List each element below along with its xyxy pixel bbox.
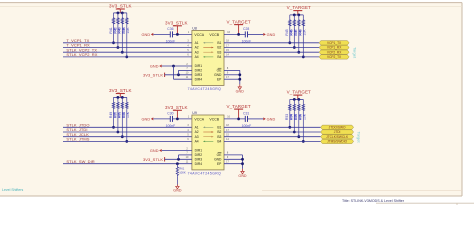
svg-text:JTCLK/SWCLK: JTCLK/SWCLK [326,135,349,139]
wire 3V3 to DIR3 (top) [165,74,192,76]
svg-text:A3: A3 [195,135,199,139]
power port 3V3_STLK (top left pull-ups) [109,4,132,13]
sheet border frame [0,2,462,4]
svg-text:3V3_STLK: 3V3_STLK [109,4,132,9]
svg-text:VCCA: VCCA [194,117,204,121]
wire net STLK_VCP2_RX [63,56,192,58]
wire C36 to VCCA pin [173,33,192,35]
svg-text:V_TARGET: V_TARGET [226,104,250,109]
junction dots pull-up bus (bottom right) [293,98,296,101]
wire GND to C30 [153,118,170,120]
svg-text:OE: OE [217,69,223,73]
svg-text:B2: B2 [217,130,221,134]
chip channel 1 pins/arrow (bottom) [195,126,222,130]
wire B4 to port VCP2_TX [224,56,319,58]
svg-text:DIR1: DIR1 [195,64,203,68]
wire net STLK_SW_DIR [63,163,192,165]
junction dot R44 to line 4 [125,56,128,59]
svg-text:B4: B4 [217,55,221,59]
svg-text:A1: A1 [195,41,199,45]
svg-text:GND: GND [214,73,222,77]
svg-text:DIR3: DIR3 [195,158,203,162]
svg-text:10K: 10K [126,111,130,118]
power port GND (top DIR1) [150,65,162,69]
resistor R50 10K (bottom left pull-up 2) [113,97,121,132]
junction dot R41 to line 1 [112,41,115,44]
chip channel 3 pins/arrow (top) [195,50,222,54]
junction dot V_TARGET/VCCB (bottom) [237,118,240,121]
wire OE stub (bottom) [224,154,243,156]
svg-text:STLK_SW_DIR: STLK_SW_DIR [66,159,94,164]
svg-text:A3: A3 [195,50,199,54]
resistor R47 10K (top right pull-up 3) [294,15,302,52]
svg-text:C31: C31 [243,111,249,115]
resistor R44 10K (top left pull-up 4) [122,13,130,57]
svg-text:74AVC4T245GRQ: 74AVC4T245GRQ [188,87,222,91]
svg-text:B2: B2 [217,46,221,50]
svg-text:100nF: 100nF [166,124,176,128]
resistor R54 10K (bottom right pull-up 2) [290,99,298,132]
junction dot R50 to line 2 [117,131,120,134]
svg-text:3V3_STLK: 3V3_STLK [143,157,163,162]
svg-text:DIR4: DIR4 [195,77,203,81]
chip U9 74AVC4T245 body (bottom) [192,115,224,170]
svg-text:U8: U8 [192,26,197,30]
svg-text:B4: B4 [217,140,221,144]
svg-text:JTDI: JTDI [334,130,341,134]
wire B3 to port JTCLK/SWCLK [224,136,321,138]
wire GND to DIR1 (top) [162,65,192,67]
power port 3V3_STLK (bottom DIR) [143,157,165,162]
capacitor C36 100nF [170,31,172,37]
power port 3V3_STLK (top VCCA) [165,21,188,35]
svg-text:VCCB: VCCB [209,117,219,121]
svg-text:VCP1_RX: VCP1_RX [327,46,342,50]
junction dot R45 to line 1 (top right) [288,41,291,44]
junction dot STLK_SW_DIR / R61 [176,162,179,165]
chip channel 2 pins/arrow (bottom) [195,130,222,134]
junction dot 3V3/VCCA (top) [176,33,179,36]
wire net STLK_JCLK [63,136,192,138]
svg-text:JTMS/SWDIO: JTMS/SWDIO [327,140,348,144]
svg-text:GND: GND [150,149,159,153]
resistor R53 10K (bottom right pull-up 1) [285,99,293,127]
resistor R52 10K (bottom left pull-up 4) [122,97,130,141]
port JTCLK/SWCLK [321,135,354,139]
chip U8 74AVC4T245 body (top) [192,31,224,86]
wire VCCB out (top) [224,33,245,35]
power port V_TARGET (top right pull-ups) [287,5,311,15]
wire B1 to port JTDO/SWO [224,126,321,128]
wire pull-up bus (bottom left) [114,96,127,98]
svg-text:GND: GND [267,117,276,121]
svg-text:DIR2: DIR2 [195,153,203,157]
svg-text:GND: GND [150,65,159,69]
resistor R48 10K (top right pull-up 4) [299,15,307,57]
power port V_TARGET (bottom right pull-ups) [287,90,311,100]
wire OE stub (top) [224,69,240,71]
wire B1 to port VCP1_TX [224,42,319,44]
wire pull-up bus (top right) [290,14,304,16]
power port 3V3_STLK (top DIR) [143,72,165,77]
svg-text:C30: C30 [167,111,173,115]
wire B3 to port VCP2_RX [224,51,319,53]
next page edge [376,202,474,204]
svg-text:3V3_STLK: 3V3_STLK [109,88,132,93]
junction dot R56 to line 4 (bottom right) [302,140,305,143]
svg-text:Title: STLINK-V3MODS & Level S: Title: STLINK-V3MODS & Level Shifter [342,199,405,203]
svg-text:VCP2_RX: VCP2_RX [327,50,342,54]
wire net STLK_VCP2_TX [63,51,192,53]
wire OE/GND/EP join (top) [239,70,241,84]
svg-text:U9: U9 [192,111,197,115]
svg-text:10K: 10K [303,29,307,36]
svg-text:GND: GND [141,33,150,37]
port VCP1_RX [319,45,349,49]
resistor R61 100K pull-down [176,164,186,185]
svg-text:A1: A1 [195,126,199,130]
wire DIR3 to DIR2 (bottom) [178,155,180,159]
svg-text:3V3_STLK: 3V3_STLK [165,105,188,110]
junction dot DIR3 (bottom) [177,158,180,161]
junction dots pull-up bus (top right) [293,14,296,17]
port VCP2_TX [319,55,349,59]
svg-text:DIR4: DIR4 [195,162,203,166]
wire B4 to port JTMS/SWDIO [224,140,321,142]
svg-text:100K: 100K [179,171,186,175]
svg-text:GND: GND [267,33,276,37]
svg-text:VCP1_TX: VCP1_TX [327,41,342,45]
wire net STLK_JTMS [63,140,192,142]
junction dot R47 to line 3 (top right) [297,51,300,54]
junction dot R46 to line 2 (top right) [293,46,296,49]
ground OE/GND/EP (bottom) [238,169,247,178]
svg-text:DIR2: DIR2 [195,69,203,73]
junction dot 3V3/VCCA (bottom) [176,118,179,121]
port JTMS/SWDIO [321,139,354,143]
power port GND (bottom VCCB) [263,117,275,121]
wire DIR1 to DIR4 (top) [173,66,175,79]
junction dot V_TARGET/VCCB (top) [237,33,240,36]
svg-text:V_TARGET: V_TARGET [287,90,311,95]
svg-text:DIR3: DIR3 [195,73,203,77]
svg-text:GND: GND [141,117,150,121]
wire C30 to VCCA pin [173,118,192,120]
resistor R42 10K (top left pull-up 2) [113,13,121,48]
power port V_TARGET (bottom VCCB) [226,104,250,119]
power port 3V3_STLK (bottom VCCA) [165,105,188,119]
resistor R46 10K (top right pull-up 2) [290,15,298,48]
junction dot R55 to line 3 (bottom right) [297,135,300,138]
resistor R51 10K (bottom left pull-up 3) [118,97,126,136]
chip channel 4 pins/arrow (bottom) [195,140,222,144]
junction dots OE join (top) [238,73,241,76]
wire C28 to GND (top) [248,33,264,35]
svg-text:Target: Target [353,47,358,59]
junction dot R52 to line 4 [125,140,128,143]
svg-text:VCCA: VCCA [194,33,204,37]
capacitor C30 100nF [170,116,172,122]
title block top edge [262,190,462,192]
svg-text:GND: GND [214,158,222,162]
svg-text:100nF: 100nF [166,40,176,44]
resistor R49 10K (bottom left pull-up 1) [109,97,117,127]
svg-text:VCCB: VCCB [209,33,219,37]
wire EP stub (bottom) [224,163,243,165]
svg-text:10K: 10K [303,113,307,120]
power port GND (top VCCA) [141,33,153,37]
svg-text:10K: 10K [126,27,130,34]
chip channel 3 pins/arrow (bottom) [195,135,222,139]
chip channel 4 pins/arrow (top) [195,55,222,59]
wire GND stub (top) [224,74,240,76]
junction dot DIR1 (top) [172,65,175,68]
svg-text:B3: B3 [217,135,221,139]
junction dot R51 to line 3 [121,135,124,138]
junction dots OE join (bottom) [241,158,244,161]
svg-text:B1: B1 [217,41,221,45]
power port GND (bottom DIR1) [150,149,162,153]
junction dot R49 to line 1 [112,126,115,129]
power port GND (bottom VCCA) [141,117,153,121]
resistor R55 10K (bottom right pull-up 3) [294,99,302,136]
svg-text:GND: GND [238,174,247,178]
resistor R43 10K (top left pull-up 3) [118,13,126,52]
svg-text:Level Shifters: Level Shifters [2,188,23,192]
wire net STLK_JTDI [63,131,192,133]
port JTDI [321,130,354,134]
resistor R56 10K (bottom right pull-up 4) [299,99,307,141]
wire DIR3 to DIR2 (top) [178,70,180,74]
wire net STLK_JTDO [63,126,192,128]
chip channel 1 pins/arrow (top) [195,41,222,45]
port JTDO/SWO [321,125,354,129]
wire pull-up bus (bottom right) [290,98,304,100]
svg-text:VCP2_TX: VCP2_TX [327,55,342,59]
svg-text:GND: GND [173,189,182,193]
junction dot R54 to line 2 (bottom right) [293,131,296,134]
wire EP stub (top) [224,78,240,80]
svg-text:JTDO/SWO: JTDO/SWO [329,125,346,129]
wire VCCB out (bottom) [224,118,245,120]
svg-text:3V3_STLK: 3V3_STLK [143,72,163,77]
port VCP2_RX [319,50,349,54]
svg-text:STLK_VCP2_RX: STLK_VCP2_RX [66,52,97,57]
wire GND to C36 [153,33,170,35]
ground OE/GND/EP (top) [236,84,245,93]
ground R61 [173,185,182,193]
wire GND stub (bottom) [224,158,243,160]
wire 3V3 to DIR3 (bottom) [165,158,192,160]
resistor R45 10K (top right pull-up 1) [285,15,293,43]
power port V_TARGET (top VCCB) [226,19,250,34]
wire net T_VCP1_RX [63,47,192,49]
junction dots pull-up bus (bottom left) [117,96,120,99]
junction dot R42 to line 2 [117,46,120,49]
wire B2 to port VCP1_RX [224,47,319,49]
svg-text:B1: B1 [217,126,221,130]
junction dot R43 to line 3 [121,51,124,54]
resistor R41 10K (top left pull-up 1) [109,13,117,43]
svg-text:V_TARGET: V_TARGET [287,5,311,10]
svg-text:C36: C36 [167,27,173,31]
junction dot DIR3 (top) [177,73,180,76]
svg-text:A2: A2 [195,130,199,134]
svg-text:Target: Target [357,131,362,143]
junction dot R53 to line 1 (bottom right) [288,126,291,129]
wire C31 to GND (bottom) [248,118,264,120]
wire net T_VCP1_TX [63,42,192,44]
svg-text:3V3_STLK: 3V3_STLK [165,21,188,26]
capacitor C31 100nF [245,116,247,122]
power port 3V3_STLK (bottom left pull-ups) [109,88,132,97]
junction dots pull-up bus (top left) [117,12,120,15]
wire B2 to port JTDI [224,131,321,133]
port VCP1_TX [319,41,349,45]
junction dot R48 to line 4 (top right) [302,56,305,59]
svg-text:DIR1: DIR1 [195,149,203,153]
chip channel 2 pins/arrow (top) [195,46,222,50]
svg-text:C28: C28 [243,27,249,31]
wire GND to DIR1 (bottom) [162,150,192,152]
svg-text:B3: B3 [217,50,221,54]
svg-text:A4: A4 [195,55,199,59]
power port GND (top VCCB) [263,33,275,37]
wire OE/GND/EP join (bottom) [242,155,244,169]
svg-text:STLK_JTMS: STLK_JTMS [66,137,89,142]
capacitor C28 100nF [245,31,247,37]
svg-text:V_TARGET: V_TARGET [226,19,250,24]
svg-text:74AVC4T245GRQ: 74AVC4T245GRQ [188,171,222,175]
svg-text:GND: GND [236,89,245,93]
svg-text:OE: OE [217,153,223,157]
svg-text:A4: A4 [195,140,199,144]
svg-text:A2: A2 [195,46,199,50]
wire pull-up bus (top left) [114,12,127,14]
